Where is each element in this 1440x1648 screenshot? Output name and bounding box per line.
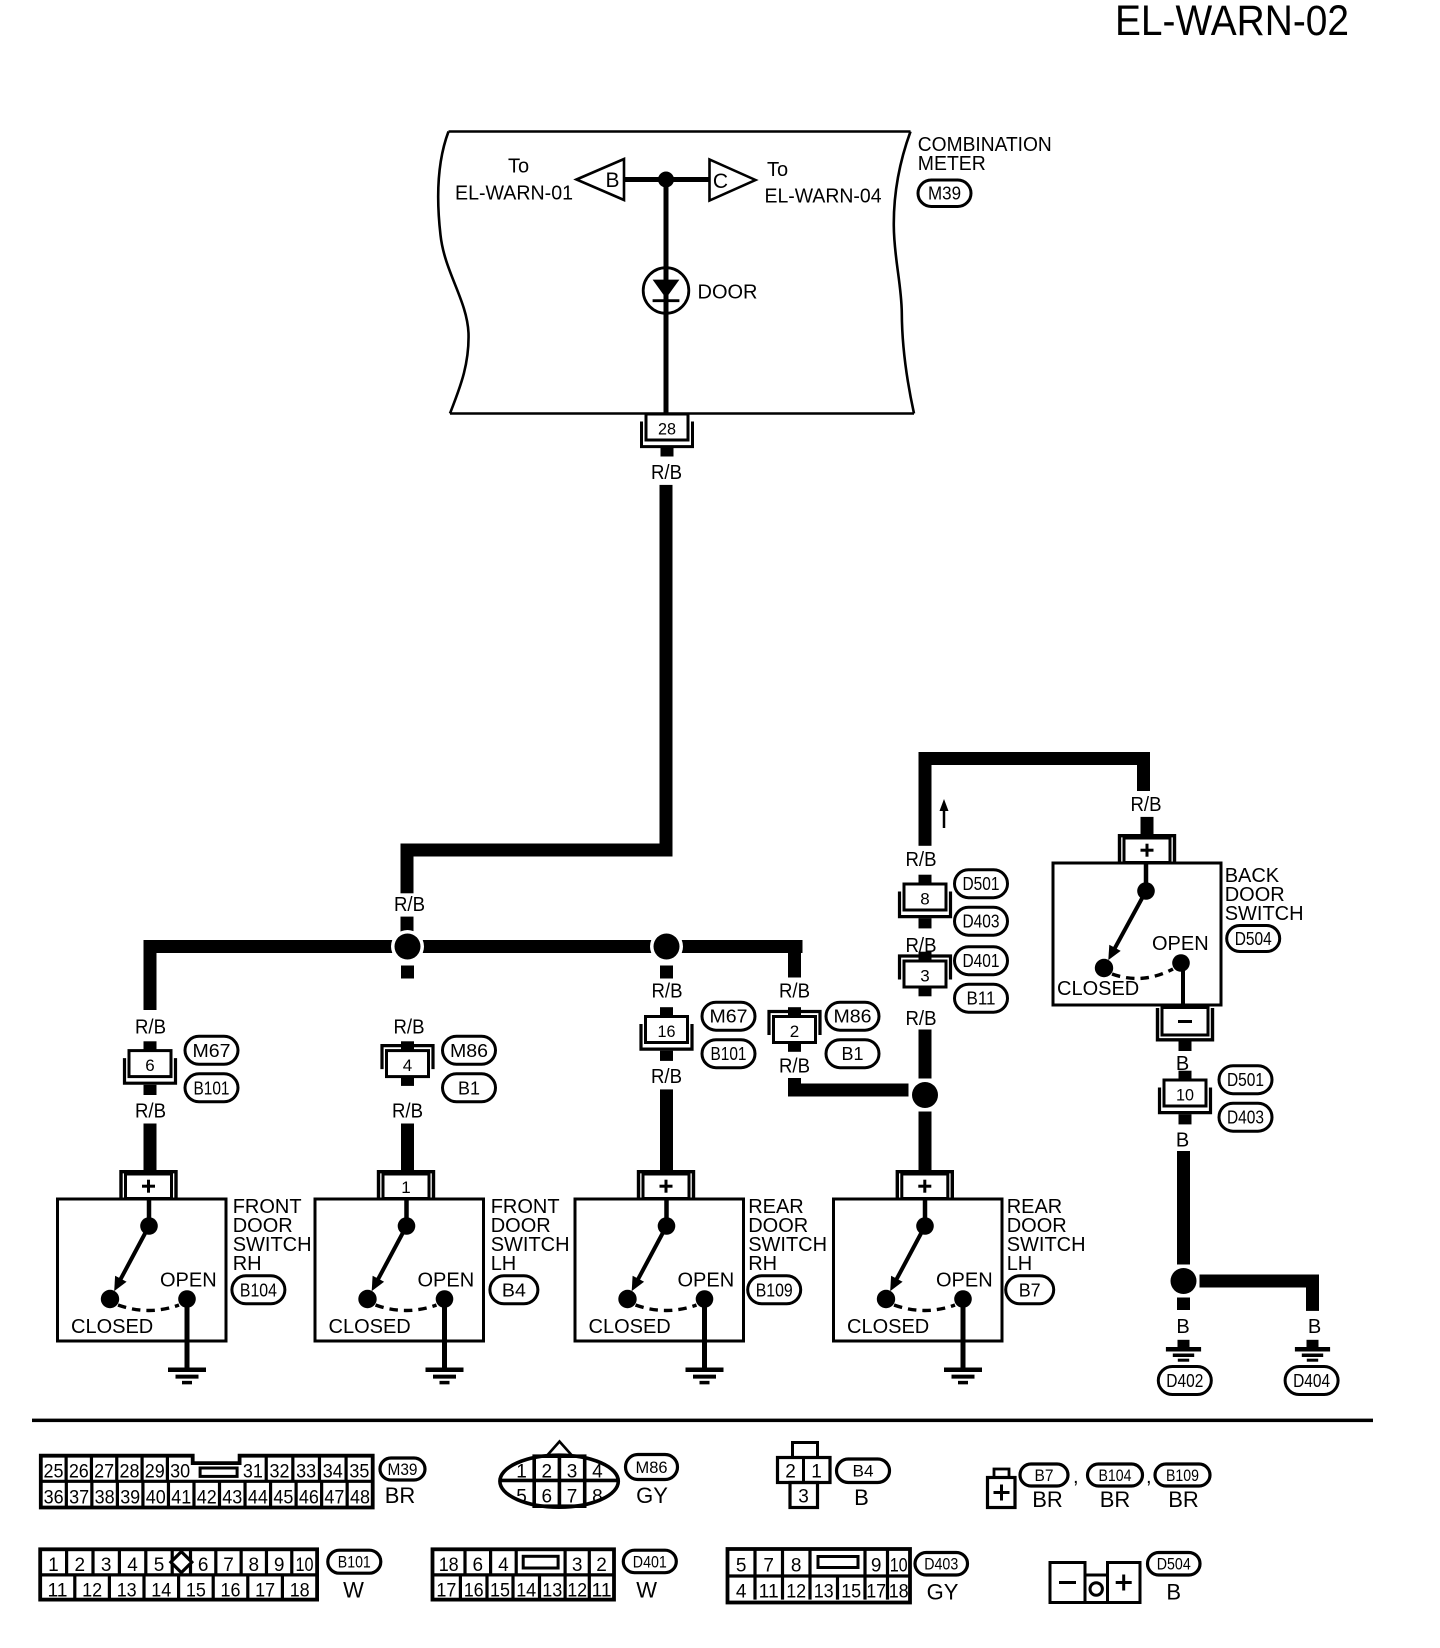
pinout connector M39 grid (41, 1456, 373, 1509)
svg-text:DOOR: DOOR (698, 282, 758, 304)
wire label R/B branch4 upper (779, 981, 810, 1003)
connector id ovals M86 B1 branch2 (443, 1036, 496, 1102)
svg-text:R/B: R/B (779, 981, 810, 1003)
wire right chain right vertical (1137, 765, 1150, 791)
svg-text:6: 6 (198, 1555, 209, 1576)
svg-text:B: B (1166, 1580, 1181, 1605)
svg-text:31: 31 (243, 1461, 263, 1482)
svg-text:6: 6 (145, 1056, 154, 1075)
connector id ovals D501 D403 conn10 (1219, 1066, 1272, 1132)
connector 6 (M67/B101) (125, 1041, 176, 1095)
svg-text:13: 13 (117, 1581, 137, 1602)
front door switch RH B104 contacts (71, 1201, 217, 1339)
svg-text:3: 3 (101, 1555, 112, 1576)
svg-text:39: 39 (120, 1487, 140, 1508)
svg-text:B: B (605, 169, 619, 192)
svg-text:CLOSED: CLOSED (1057, 978, 1139, 1000)
svg-text:CLOSED: CLOSED (71, 1316, 153, 1338)
svg-text:14: 14 (516, 1581, 536, 1602)
svg-text:7: 7 (223, 1555, 234, 1576)
svg-text:29: 29 (145, 1461, 165, 1482)
pinout id oval B7 (1020, 1464, 1079, 1488)
svg-text:2: 2 (790, 1022, 799, 1041)
svg-text:1: 1 (401, 1178, 410, 1197)
connector + at rear door switch RH (639, 1172, 694, 1199)
wire label R/B branch3 lower (651, 1066, 682, 1088)
wire label R/B branch1 lower (135, 1100, 166, 1122)
svg-text:To: To (508, 156, 529, 178)
svg-text:2: 2 (75, 1555, 86, 1576)
wire label B right ground (1308, 1316, 1321, 1338)
back door switch box D504 (1053, 863, 1221, 1005)
wire label B left ground (1176, 1316, 1189, 1338)
svg-text:D504: D504 (1235, 929, 1272, 949)
wire label R/B branch1 upper (135, 1017, 166, 1039)
svg-text:R/B: R/B (135, 1100, 166, 1122)
svg-text:OPEN: OPEN (678, 1270, 735, 1292)
combination meter box M39 (438, 132, 914, 414)
svg-text:3: 3 (920, 967, 929, 986)
svg-text:C: C (713, 170, 728, 193)
svg-text:42: 42 (197, 1487, 217, 1508)
svg-text:11: 11 (759, 1582, 779, 1603)
page link triangle B (577, 159, 625, 200)
svg-text:48: 48 (350, 1487, 370, 1508)
ground under rear door switch RH B109 (686, 1306, 724, 1383)
svg-text:B11: B11 (967, 989, 996, 1009)
direction arrow up (940, 799, 949, 828)
label FRONT DOOR SWITCH RH (233, 1196, 312, 1275)
rear door switch RH B109 contacts (589, 1201, 735, 1339)
wire label R/B branch4 lower (779, 1056, 810, 1078)
svg-text:40: 40 (146, 1487, 166, 1508)
svg-text:28: 28 (119, 1461, 139, 1482)
svg-text:16: 16 (464, 1581, 484, 1602)
connector 16 (M67/B101) (641, 1007, 692, 1061)
node junction bus/branch2 (391, 930, 424, 963)
svg-text:32: 32 (270, 1461, 290, 1482)
wire stub below ground junction (1177, 1298, 1190, 1311)
svg-text:26: 26 (69, 1461, 89, 1482)
svg-text:D501: D501 (1227, 1070, 1264, 1090)
pinout id oval B104 (1088, 1464, 1152, 1488)
svg-text:EL-WARN-02: EL-WARN-02 (1115, 0, 1349, 45)
wire down to ground junction (1177, 1151, 1190, 1265)
wire B-to-C (624, 177, 710, 182)
svg-text:B104: B104 (240, 1280, 277, 1300)
svg-text:OPEN: OPEN (418, 1270, 475, 1292)
svg-text:11: 11 (592, 1581, 612, 1602)
svg-text:18: 18 (290, 1581, 310, 1602)
connector + at front door switch RH (121, 1172, 176, 1199)
svg-text:,: , (1146, 1466, 1152, 1488)
pinout color GY (D403) (927, 1580, 959, 1605)
connector id oval D402 (1158, 1367, 1211, 1395)
svg-text:12: 12 (82, 1581, 102, 1602)
svg-text:RH: RH (233, 1253, 262, 1275)
svg-text:,: , (1073, 1466, 1079, 1488)
wire branch3 to switch (660, 1089, 673, 1170)
svg-text:B7: B7 (1035, 1467, 1054, 1485)
pinout color B (D504) (1166, 1580, 1181, 1605)
svg-text:B1: B1 (842, 1044, 864, 1064)
front door switch RH B104 box (58, 1199, 227, 1341)
svg-text:B1: B1 (458, 1078, 480, 1098)
svg-text:1: 1 (811, 1462, 822, 1483)
pinout connector M86 grid (498, 1442, 620, 1510)
wire junction to rear door switch LH (919, 1112, 932, 1171)
svg-text:3: 3 (567, 1462, 578, 1483)
connector id oval D504 (1227, 926, 1280, 952)
separator line (32, 1419, 1373, 1423)
svg-text:D403: D403 (1227, 1108, 1264, 1128)
svg-text:CLOSED: CLOSED (847, 1316, 929, 1338)
wire label B below connector 10 (1176, 1130, 1189, 1152)
svg-text:25: 25 (44, 1461, 64, 1482)
svg-text:R/B: R/B (652, 981, 683, 1003)
svg-text:BR: BR (1168, 1487, 1199, 1512)
svg-text:1: 1 (516, 1462, 527, 1483)
svg-text:B: B (854, 1485, 869, 1510)
svg-text:16: 16 (221, 1581, 241, 1602)
svg-text:8: 8 (791, 1556, 802, 1577)
connector id ovals M86 B1 branch4 (826, 1002, 879, 1067)
svg-text:B: B (1176, 1316, 1189, 1338)
pinout connector D504 symbol (1050, 1563, 1140, 1603)
wire ground branch horizontal (1200, 1275, 1320, 1311)
svg-text:B: B (1308, 1316, 1321, 1338)
wire label R/B branch2 upper (394, 1017, 425, 1039)
svg-text:17: 17 (255, 1581, 275, 1602)
svg-text:B7: B7 (1019, 1280, 1041, 1300)
svg-text:6: 6 (542, 1487, 553, 1508)
svg-text:B: B (1176, 1130, 1189, 1152)
wire label R/B back door (1131, 794, 1162, 816)
svg-text:D403: D403 (963, 912, 1000, 932)
svg-text:38: 38 (95, 1487, 115, 1508)
svg-text:45: 45 (273, 1487, 293, 1508)
svg-text:18: 18 (439, 1555, 459, 1576)
svg-text:M39: M39 (388, 1461, 418, 1479)
svg-text:5: 5 (736, 1556, 747, 1577)
body ground D404 (1295, 1340, 1330, 1360)
pinout color BR (M39) (385, 1483, 416, 1508)
svg-text:15: 15 (841, 1582, 861, 1603)
svg-text:LH: LH (1007, 1253, 1033, 1275)
svg-text:3: 3 (572, 1555, 583, 1576)
svg-text:B104: B104 (1099, 1467, 1132, 1485)
svg-text:CLOSED: CLOSED (329, 1316, 411, 1338)
body ground D402 (1166, 1340, 1201, 1360)
svg-text:11: 11 (48, 1581, 68, 1602)
svg-text:43: 43 (222, 1487, 242, 1508)
node ground junction (1167, 1265, 1200, 1298)
svg-text:To: To (767, 159, 788, 181)
svg-text:R/B: R/B (135, 1017, 166, 1039)
svg-text:R/B: R/B (651, 1066, 682, 1088)
svg-text:34: 34 (323, 1461, 343, 1482)
svg-text:13: 13 (814, 1582, 834, 1603)
ground under rear door switch LH B7 (944, 1306, 982, 1383)
connector id ovals D501 D403 conn8 (955, 870, 1008, 936)
pinout id oval M39 (380, 1458, 425, 1480)
connector + at back door switch (1120, 836, 1175, 863)
svg-text:2: 2 (542, 1462, 553, 1483)
pinout id oval D504 (1148, 1553, 1201, 1576)
svg-text:OPEN: OPEN (1152, 933, 1209, 955)
wire stub below minus connector (1179, 1040, 1192, 1051)
pinout connector B4 grid (778, 1443, 831, 1508)
connector 8 (D501/D403) (900, 875, 951, 929)
wire trunk vertical from pin 28 (660, 485, 673, 850)
connector 2 (M86/B1) (769, 1007, 820, 1052)
wire bus horizontal (144, 940, 803, 953)
svg-text:BR: BR (1032, 1487, 1063, 1512)
pinout id oval D403 (915, 1553, 968, 1576)
wire right chain horizontal top (919, 752, 1151, 765)
svg-text:B101: B101 (338, 1554, 371, 1572)
label COMBINATION METER (918, 134, 1052, 175)
wire label R/B trunk (394, 894, 425, 916)
node junction in meter (658, 172, 674, 188)
pinout connector D403 grid (728, 1549, 911, 1603)
front door switch LH B4 box (315, 1199, 484, 1341)
svg-text:M67: M67 (193, 1041, 231, 1061)
svg-text:4: 4 (127, 1555, 138, 1576)
connector id ovals D401 B11 conn3 (955, 947, 1008, 1013)
label To EL-WARN-04 (765, 159, 882, 208)
svg-text:RH: RH (748, 1253, 777, 1275)
wire branch2 stub (401, 966, 414, 979)
connector id oval M39 (918, 180, 971, 207)
connector id oval B109 (748, 1276, 801, 1304)
wire trunk stub to bus (401, 917, 414, 940)
svg-text:B4: B4 (502, 1280, 526, 1300)
svg-text:R/B: R/B (779, 1056, 810, 1078)
back door switch contacts (1057, 865, 1209, 1001)
page link triangle C (710, 160, 756, 201)
wire label R/B below pin 28 (651, 462, 682, 484)
pinout color GY (M86) (636, 1483, 668, 1508)
svg-text:GY: GY (636, 1483, 668, 1508)
svg-text:9: 9 (274, 1555, 285, 1576)
connector id oval B104 (232, 1276, 285, 1304)
svg-text:10: 10 (890, 1556, 908, 1577)
connector + at rear door switch LH (897, 1172, 952, 1199)
svg-text:12: 12 (567, 1581, 587, 1602)
svg-text:B4: B4 (853, 1463, 874, 1481)
svg-text:17: 17 (436, 1581, 456, 1602)
svg-text:OPEN: OPEN (936, 1270, 993, 1292)
svg-text:16: 16 (658, 1022, 676, 1041)
svg-text:9: 9 (871, 1556, 882, 1577)
svg-text:4: 4 (403, 1056, 412, 1075)
svg-text:47: 47 (324, 1487, 344, 1508)
connector 4 (M86/B1) (382, 1041, 433, 1086)
svg-text:41: 41 (171, 1487, 191, 1508)
wire junction to pin 28 (664, 180, 669, 414)
svg-text:OPEN: OPEN (160, 1270, 217, 1292)
svg-text:R/B: R/B (651, 462, 682, 484)
wire branch4 elbow (788, 1078, 909, 1097)
svg-text:15: 15 (186, 1581, 206, 1602)
pinout colors BR BR BR (1032, 1487, 1199, 1512)
svg-text:14: 14 (151, 1581, 171, 1602)
pinout connector B101 grid (40, 1549, 317, 1601)
wire branch4 down from bus (788, 940, 801, 978)
svg-text:B109: B109 (1166, 1467, 1199, 1485)
svg-text:LH: LH (491, 1253, 517, 1275)
connector id oval B7 (1006, 1276, 1054, 1304)
svg-text:17: 17 (866, 1582, 886, 1603)
node junction branch4/right chain (909, 1079, 942, 1112)
wire label R/B below connector 3 (906, 1008, 937, 1030)
wire open contact to minus pin (1181, 970, 1185, 1006)
svg-text:BR: BR (1100, 1487, 1131, 1512)
label DOOR (698, 282, 758, 304)
svg-text:R/B: R/B (392, 1100, 423, 1122)
svg-text:W: W (636, 1578, 657, 1603)
svg-text:D404: D404 (1293, 1371, 1330, 1391)
wire stub above back door connector (1141, 817, 1154, 835)
svg-text:CLOSED: CLOSED (589, 1316, 671, 1338)
wire label R/B above connector 8 (906, 849, 937, 871)
svg-text:R/B: R/B (1131, 794, 1162, 816)
wire trunk down to bus (401, 844, 414, 894)
svg-text:B101: B101 (711, 1044, 747, 1064)
svg-text:8: 8 (249, 1555, 260, 1576)
svg-text:M86: M86 (450, 1041, 488, 1061)
wire label R/B between 8 and 3 (906, 935, 937, 957)
wire branch2 to switch (401, 1124, 414, 1171)
svg-text:M86: M86 (834, 1007, 872, 1027)
label BACK DOOR SWITCH (1225, 865, 1304, 925)
svg-text:D501: D501 (963, 874, 1000, 894)
connector id oval D404 (1285, 1367, 1338, 1395)
rear door switch RH B109 box (575, 1199, 744, 1341)
connector 1 at front door switch LH (379, 1172, 434, 1199)
svg-text:M39: M39 (928, 184, 961, 204)
connector 3 (D401/B11) (900, 952, 951, 997)
pinout color W (B101) (343, 1578, 364, 1603)
wire label R/B branch2 lower (392, 1100, 423, 1122)
svg-text:R/B: R/B (394, 894, 425, 916)
svg-text:R/B: R/B (394, 1017, 425, 1039)
svg-text:SWITCH: SWITCH (1225, 903, 1304, 925)
svg-text:6: 6 (473, 1555, 484, 1576)
node junction bus/branch3 (650, 930, 683, 963)
label To EL-WARN-01 (455, 156, 573, 205)
svg-text:37: 37 (69, 1487, 89, 1508)
svg-text:35: 35 (349, 1461, 369, 1482)
connector pin 28 (M39) (642, 414, 693, 457)
svg-text:2: 2 (785, 1462, 796, 1483)
svg-text:46: 46 (299, 1487, 319, 1508)
svg-text:2: 2 (596, 1555, 607, 1576)
pinout id oval B101 (328, 1550, 381, 1573)
svg-text:36: 36 (44, 1487, 64, 1508)
svg-text:8: 8 (920, 890, 929, 909)
ground under front door switch LH B4 (426, 1306, 464, 1383)
ground under front door switch RH B104 (168, 1306, 206, 1383)
wire right chain left vertical (919, 765, 932, 846)
svg-text:4: 4 (592, 1462, 603, 1483)
svg-text:10: 10 (1176, 1086, 1194, 1105)
svg-text:7: 7 (763, 1556, 774, 1577)
svg-text:D402: D402 (1166, 1371, 1203, 1391)
svg-text:D504: D504 (1157, 1556, 1191, 1574)
rear door switch LH B7 box (834, 1199, 1003, 1341)
svg-text:R/B: R/B (906, 849, 937, 871)
svg-text:R/B: R/B (906, 1008, 937, 1030)
svg-text:10: 10 (295, 1555, 313, 1576)
pinout color B (B4) (854, 1485, 869, 1510)
rear door switch LH B7 contacts (847, 1201, 993, 1339)
svg-text:B109: B109 (756, 1280, 793, 1300)
pinout connector D401 grid (433, 1549, 615, 1601)
wire label R/B branch3 upper (652, 981, 683, 1003)
pinout connector body-ground symbol (988, 1469, 1016, 1508)
label REAR DOOR SWITCH RH (748, 1196, 827, 1275)
pinout id oval B4 (837, 1459, 890, 1483)
svg-text:BR: BR (385, 1483, 416, 1508)
label REAR DOOR SWITCH LH (1007, 1196, 1086, 1275)
pinout id oval M86 (626, 1455, 678, 1480)
svg-text:METER: METER (918, 153, 986, 175)
svg-text:D401: D401 (633, 1553, 667, 1571)
connector id ovals M67 B101 branch1 (185, 1036, 238, 1102)
svg-text:1: 1 (48, 1555, 59, 1576)
svg-text:30: 30 (170, 1461, 190, 1482)
DOOR warning lamp (643, 268, 689, 314)
svg-text:8: 8 (592, 1487, 603, 1508)
pinout color W (D401) (636, 1578, 657, 1603)
svg-text:27: 27 (94, 1461, 114, 1482)
label FRONT DOOR SWITCH LH (491, 1196, 570, 1275)
svg-text:EL-WARN-01: EL-WARN-01 (455, 183, 573, 205)
svg-text:28: 28 (658, 420, 676, 439)
svg-text:4: 4 (498, 1555, 509, 1576)
svg-text:3: 3 (798, 1487, 809, 1508)
svg-text:M86: M86 (636, 1458, 668, 1477)
svg-text:44: 44 (248, 1487, 268, 1508)
svg-text:12: 12 (786, 1582, 806, 1603)
svg-text:EL-WARN-04: EL-WARN-04 (765, 186, 882, 208)
connector 10 (D501/D403) (1160, 1071, 1211, 1125)
wire branch1 down (144, 940, 157, 1010)
wire branch3 stub (660, 966, 673, 979)
svg-text:13: 13 (542, 1581, 562, 1602)
svg-text:18: 18 (889, 1582, 909, 1603)
front door switch LH B4 contacts (329, 1201, 475, 1339)
svg-text:B101: B101 (194, 1078, 230, 1098)
svg-text:M67: M67 (710, 1007, 748, 1027)
svg-text:7: 7 (567, 1487, 578, 1508)
pinout id oval B109 (1155, 1464, 1210, 1486)
svg-text:GY: GY (927, 1580, 959, 1605)
svg-text:D401: D401 (963, 951, 1000, 971)
pinout id oval D401 (623, 1550, 676, 1573)
svg-text:33: 33 (296, 1461, 316, 1482)
svg-text:4: 4 (736, 1582, 747, 1603)
wire conn3 to junction (919, 1030, 932, 1079)
svg-text:5: 5 (154, 1555, 165, 1576)
wire label B below back door switch (1176, 1053, 1189, 1075)
connector id ovals M67 B101 branch3 (702, 1002, 755, 1067)
wire branch1 to switch (144, 1124, 157, 1171)
svg-text:15: 15 (490, 1581, 510, 1602)
svg-text:D403: D403 (924, 1556, 958, 1574)
